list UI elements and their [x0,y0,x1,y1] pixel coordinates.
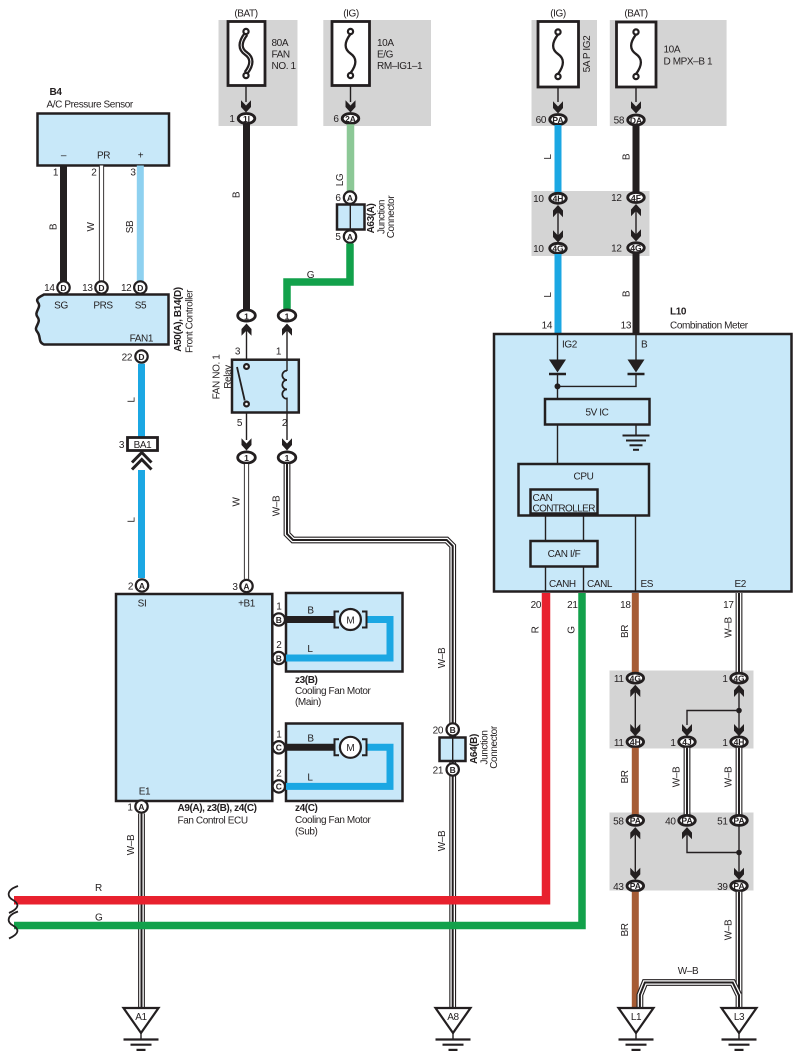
wire CPU to pin ES [635,516,637,592]
connector 1 above relay pin 1 [278,310,296,321]
arrow link 51PA to 39PA [738,826,740,873]
svg-text:L: L [307,644,313,655]
wire LG from 2A to junction A63 [347,124,355,191]
svg-text:FAN NO. 1: FAN NO. 1 [212,354,223,400]
svg-text:13: 13 [82,283,93,294]
svg-text:B: B [450,765,456,775]
svg-text:1: 1 [285,311,290,321]
svg-text:4G: 4G [733,673,745,683]
wire W white sensor pin2 [99,166,104,282]
svg-text:1: 1 [276,729,282,740]
svg-text:43: 43 [613,882,624,893]
wire B black from 1I to relay connector [243,124,250,310]
svg-text:22: 22 [122,353,133,364]
fuse 1 output arrow [245,86,247,103]
svg-text:10: 10 [533,194,544,205]
svg-text:Front Controller: Front Controller [185,289,196,353]
fan control ECU body [116,594,272,801]
svg-text:B: B [232,191,243,198]
fuse block background 4 [610,20,727,126]
svg-text:10A: 10A [377,38,394,49]
svg-text:18: 18 [620,600,631,611]
motor main wire B [284,616,334,623]
svg-text:1: 1 [285,453,290,463]
junction connector A63(A) body [337,205,365,230]
node junction dot [555,383,561,389]
svg-text:z3(B): z3(B) [295,675,318,686]
wire W white relay to ECU +B1 [244,464,249,579]
svg-text:3: 3 [232,582,238,593]
svg-text:A: A [139,581,145,591]
svg-text:4J: 4J [682,737,692,747]
svg-text:5V IC: 5V IC [585,408,608,419]
cooling fan motor sub z4(C) body [286,724,403,802]
svg-text:A63(A): A63(A) [366,204,377,234]
front controller body A50(A) B14(D) [36,295,169,345]
arrow link 40PA branch from 51PA line [682,827,692,839]
svg-text:(BAT): (BAT) [234,9,257,20]
svg-text:4H: 4H [630,737,641,747]
fuse 10A D MPX-B 1 body [617,22,657,87]
fuse block background 2 [323,20,431,126]
motor sub terminals [335,739,340,755]
svg-text:4G: 4G [552,244,564,254]
svg-text:R: R [95,883,102,894]
svg-text:C: C [276,782,282,792]
svg-text:2: 2 [276,640,282,651]
motor main M symbol [340,609,361,630]
svg-text:1: 1 [244,453,249,463]
svg-text:DA: DA [630,115,642,125]
svg-text:W–B: W–B [678,966,699,977]
CPU box [519,464,650,516]
svg-text:PA: PA [733,816,744,826]
svg-text:PA: PA [733,881,744,891]
svg-text:3: 3 [119,440,125,451]
svg-text:A: A [138,802,144,812]
ground A8 [436,1008,471,1033]
svg-text:4F: 4F [631,193,641,203]
svg-text:L: L [543,292,554,298]
svg-text:4G: 4G [630,673,642,683]
break symbol green wire [9,912,18,939]
svg-text:B: B [49,223,60,230]
wire W-B 39PA to ground L3 [736,892,743,1008]
svg-text:+: + [138,151,144,162]
connector block background 4G/4H/4J [610,671,754,749]
svg-text:58: 58 [613,816,624,827]
cooling fan motor main z3(B) body [286,593,403,672]
svg-text:G: G [567,626,578,634]
fuse 3 output arrow [557,87,559,102]
svg-text:SB: SB [125,220,136,233]
svg-text:+B1: +B1 [238,599,256,610]
svg-text:W–B: W–B [672,766,683,787]
wire L blue from 4G to meter pin 14 [555,254,562,334]
svg-text:A1: A1 [135,1012,147,1023]
svg-text:14: 14 [542,321,553,332]
svg-text:21: 21 [433,766,444,777]
svg-text:14: 14 [44,283,55,294]
svg-text:CPU: CPU [574,472,594,483]
svg-text:W–B: W–B [126,834,137,855]
svg-text:S5: S5 [135,301,147,312]
arrow link 58PA to 43PA [630,827,640,839]
svg-text:B: B [450,725,456,735]
svg-text:2: 2 [128,582,134,593]
svg-text:11: 11 [614,674,624,685]
wire BR brown from ES [632,593,639,673]
svg-text:(Main): (Main) [295,697,321,708]
combination meter body [494,334,792,592]
svg-text:CONTROLLER: CONTROLLER [533,504,596,515]
connector block background 4H/4G [532,191,650,256]
connector block background PA [610,813,754,891]
svg-text:G: G [95,913,103,924]
svg-text:NO. 1: NO. 1 [272,61,297,72]
svg-text:CANH: CANH [549,579,576,590]
svg-text:51: 51 [717,816,728,827]
svg-text:RM–IG1–1: RM–IG1–1 [377,61,423,72]
fuse 4 output arrow [635,87,637,102]
svg-text:10: 10 [533,244,544,255]
svg-text:L3: L3 [734,1012,745,1023]
svg-text:BR: BR [620,625,631,638]
svg-text:PA: PA [681,816,692,826]
svg-text:Relay: Relay [223,365,234,389]
svg-text:W: W [232,497,243,507]
relay coil [286,360,288,371]
svg-text:60: 60 [536,115,547,126]
svg-text:40: 40 [665,816,676,827]
svg-text:SG: SG [54,301,68,312]
svg-text:–: – [61,151,67,162]
ground L1 [619,1008,654,1033]
svg-text:10A: 10A [664,45,681,56]
svg-text:L: L [127,397,138,403]
motor sub wire L loop [286,747,390,786]
svg-text:3: 3 [130,168,136,179]
svg-text:5: 5 [335,232,341,243]
ground L3 [722,1008,757,1033]
svg-text:A: A [347,193,353,203]
diode IG2 [549,360,566,373]
motor sub M symbol [340,737,361,758]
svg-text:E2: E2 [735,579,747,590]
svg-text:A9(A), z3(B), z4(C): A9(A), z3(B), z4(C) [178,803,257,814]
wire BR 43PA to ground L1 [632,892,639,1008]
svg-text:D: D [137,283,143,293]
svg-text:C: C [276,743,282,753]
svg-text:1: 1 [670,738,676,749]
svg-text:B: B [622,290,633,297]
svg-text:FAN1: FAN1 [130,334,154,345]
wire L blue BA1 to ECU SI [138,470,145,578]
meter internal lead IG2 [557,334,559,360]
svg-text:E1: E1 [139,787,151,798]
fuse 2 output arrow [350,86,352,103]
svg-text:B: B [622,153,633,160]
svg-text:11: 11 [614,738,624,749]
svg-text:D: D [60,283,66,293]
svg-text:B4: B4 [50,87,63,98]
svg-text:1: 1 [229,114,235,125]
svg-text:12: 12 [611,193,622,204]
svg-text:A: A [243,581,249,591]
svg-text:W: W [86,222,97,232]
svg-text:17: 17 [723,600,734,611]
fuse block background 1 [219,20,298,126]
svg-text:Combination Meter: Combination Meter [670,321,749,332]
svg-text:W–B: W–B [724,919,735,940]
junction connector A64(B) body [440,738,466,762]
svg-text:(IG): (IG) [343,9,359,20]
svg-text:D MPX–B 1: D MPX–B 1 [664,57,713,68]
svg-text:4G: 4G [630,243,642,253]
svg-text:CAN: CAN [533,493,553,504]
meter internal lead B [635,334,637,360]
svg-text:L: L [127,517,138,523]
svg-text:Fan Control ECU: Fan Control ECU [178,816,248,827]
svg-text:2: 2 [276,768,282,779]
svg-text:PRS: PRS [93,301,113,312]
wire 5V IC to CPU [557,425,559,465]
svg-text:A/C Pressure Sensor: A/C Pressure Sensor [47,100,134,111]
svg-text:A8: A8 [447,1012,459,1023]
svg-text:PR: PR [97,151,110,162]
svg-text:5: 5 [237,418,243,429]
svg-text:5A P IG2: 5A P IG2 [582,35,593,72]
connector 1 above relay pin 3 [238,310,256,321]
svg-text:20: 20 [433,726,444,737]
arrow link 4G right with branch to 4J [734,685,744,697]
svg-text:M: M [346,743,354,754]
arrow link 4H to 4G [553,205,563,217]
svg-text:M: M [346,615,354,626]
svg-text:1: 1 [276,602,282,613]
svg-text:12: 12 [611,244,622,255]
svg-text:39: 39 [717,882,728,893]
wire W-B 4H to 51PA [736,748,743,815]
svg-text:BR: BR [620,770,631,783]
svg-text:12: 12 [121,283,132,294]
wire B black sensor pin1 [60,166,67,282]
svg-text:(BAT): (BAT) [624,9,647,20]
svg-text:4H: 4H [734,737,745,747]
wire W-B relay pin2 to junction A64 to ground A8 [287,464,453,1008]
svg-text:SI: SI [138,599,147,610]
wire L blue from PA to 4H [555,125,562,193]
wire G green from A63 to relay connector [287,244,350,311]
svg-text:E/G: E/G [377,50,394,61]
connector 1 below relay pin 2 [278,452,296,463]
svg-text:L: L [543,154,554,160]
ground inside meter [635,425,637,436]
svg-text:IG2: IG2 [562,340,578,351]
svg-text:21: 21 [567,600,578,611]
arrow link 4G to 4H left [630,685,640,697]
wire B black from 4G to meter pin 13 [633,254,640,335]
svg-text:B: B [276,615,282,625]
svg-text:G: G [307,270,315,281]
svg-text:Cooling Fan Motor: Cooling Fan Motor [295,686,372,697]
svg-text:A: A [347,232,353,242]
A/C pressure sensor body [38,114,170,166]
svg-text:PA: PA [552,115,563,125]
svg-text:B: B [641,340,648,351]
svg-text:A64(B): A64(B) [469,734,480,764]
wire BR 4H to 58PA [632,748,639,815]
svg-text:1: 1 [722,674,728,685]
CAN CONTROLLER box [531,490,598,514]
svg-text:L1: L1 [631,1012,642,1023]
arrow link 4F to 4G [631,204,641,216]
wire W-B from E2 [736,593,743,673]
fuse 80A FAN NO.1 body [228,22,265,86]
svg-text:80A: 80A [272,38,289,49]
fuse 10A E/G RM-IG1-1 body [332,22,370,86]
svg-text:(IG): (IG) [550,9,566,20]
svg-text:58: 58 [614,116,625,127]
wire B black from DA to 4F [633,126,640,193]
svg-text:4H: 4H [553,194,564,204]
svg-text:13: 13 [621,321,632,332]
5V IC box [545,399,650,425]
svg-text:1: 1 [127,803,133,814]
fuse 5A P IG2 body [538,22,579,88]
svg-text:PA: PA [630,881,641,891]
wire W-B from E1 to ground A1 [138,814,145,1009]
svg-text:B: B [307,606,314,617]
svg-text:B: B [276,653,282,663]
svg-text:L10: L10 [670,307,687,318]
fuse block background 3 [532,20,598,126]
svg-text:W–B: W–B [272,495,283,516]
svg-text:2A: 2A [345,114,356,124]
svg-text:W–B: W–B [724,766,735,787]
svg-text:1: 1 [276,347,282,358]
svg-text:CAN I/F: CAN I/F [548,549,581,560]
svg-text:Connector: Connector [489,725,500,769]
wire diode B to node [558,374,637,386]
svg-text:20: 20 [531,600,542,611]
wire R red CANH [14,593,546,900]
wire diode IG2 to 5V IC [557,374,559,399]
break symbol red wire [9,886,18,913]
svg-text:W–B: W–B [437,830,448,851]
connector 1 below relay pin 5 [238,452,256,463]
svg-text:D: D [138,352,144,362]
wires CAN I/F to pins CANH CANL [545,567,547,592]
wire L blue FAN1 to BA1 [138,364,145,438]
svg-text:W–B: W–B [437,647,448,668]
svg-text:3: 3 [235,347,241,358]
svg-text:1I: 1I [243,114,250,124]
svg-text:1: 1 [244,311,249,321]
svg-text:A50(A), B14(D): A50(A), B14(D) [173,287,184,351]
svg-text:z4(C): z4(C) [295,803,318,814]
diode B [628,360,645,373]
svg-text:R: R [531,626,542,633]
CAN I/F box [531,541,598,567]
svg-text:2: 2 [91,168,97,179]
wire W-B 4J to 40PA [684,748,691,815]
svg-text:FAN: FAN [272,50,290,61]
svg-text:6: 6 [333,114,339,125]
wire W-B link L3 to L1 [640,983,739,1009]
svg-text:ES: ES [641,579,654,590]
svg-text:1: 1 [53,168,59,179]
svg-text:(Sub): (Sub) [295,827,318,838]
svg-text:D: D [98,283,104,293]
svg-text:BR: BR [620,923,631,936]
svg-text:BA1: BA1 [134,440,153,451]
motor main wire L loop [286,620,390,659]
svg-text:Connector: Connector [386,195,397,239]
relay switch contact [244,364,249,369]
svg-text:6: 6 [335,193,341,204]
wire SB skyblue sensor pin3 [137,166,144,282]
wire G green CANL [14,593,582,926]
shield chevrons below BA1 [132,453,152,463]
svg-text:Cooling Fan Motor: Cooling Fan Motor [295,815,372,826]
wires CAN controller to CAN I/F [545,514,547,542]
svg-text:B: B [307,733,314,744]
svg-text:L: L [307,772,313,783]
svg-text:1: 1 [722,738,728,749]
svg-text:PA: PA [630,816,641,826]
svg-text:LG: LG [335,173,346,186]
motor sub wire B [284,744,334,751]
motor main terminals [335,612,340,628]
svg-text:W–B: W–B [724,617,735,638]
ground A1 [124,1008,159,1033]
svg-text:CANL: CANL [587,579,613,590]
